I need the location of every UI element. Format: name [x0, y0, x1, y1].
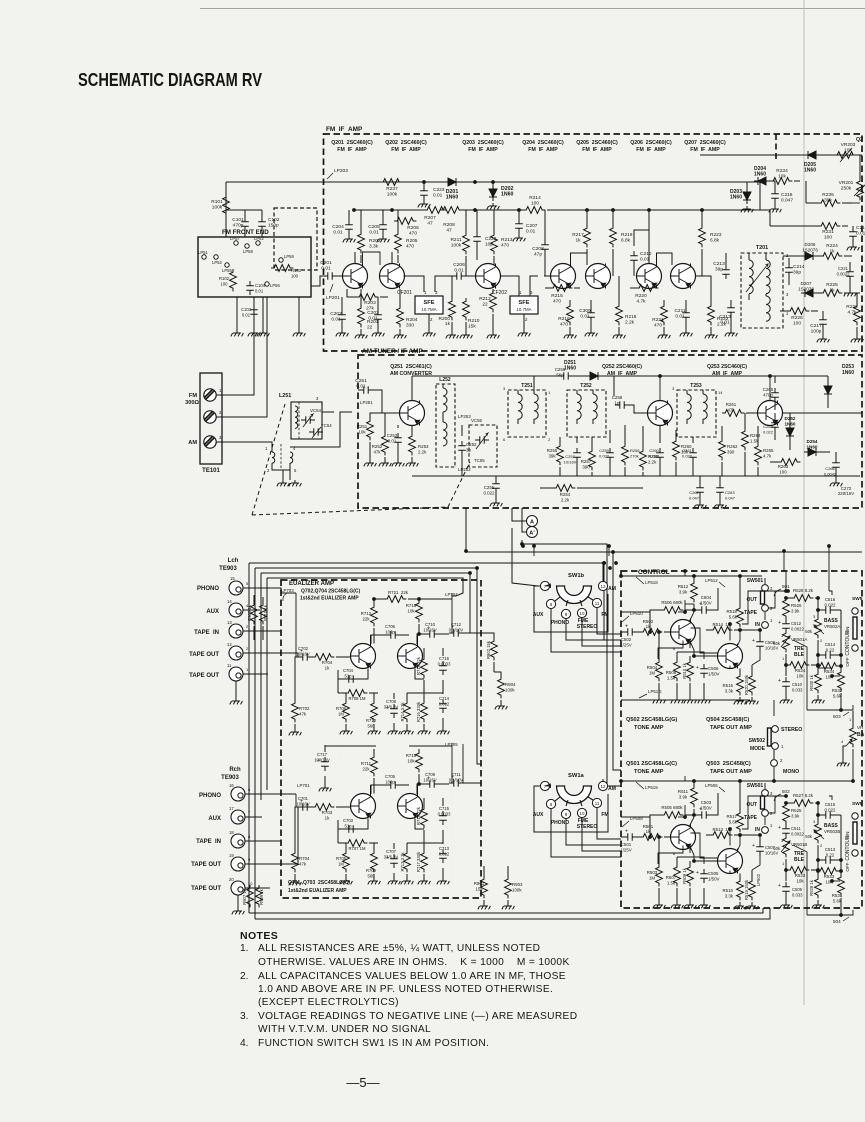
svg-text:10k: 10k	[358, 429, 366, 434]
svg-text:R719 22k: R719 22k	[416, 656, 421, 675]
svg-text:15k: 15k	[468, 323, 476, 329]
capacitor C253	[387, 425, 402, 460]
resistor R525	[783, 802, 802, 826]
svg-text:12: 12	[601, 784, 606, 789]
capacitor C512	[778, 619, 804, 633]
capacitor C515	[817, 802, 841, 819]
wire Q703 collector up	[417, 784, 419, 795]
svg-text:R709: R709	[366, 868, 377, 873]
resistor R503	[647, 836, 663, 902]
pot VR fragment right	[841, 711, 865, 760]
resistor R203	[347, 289, 388, 311]
svg-text:39k: 39k	[548, 453, 556, 458]
svg-text:FM: FM	[189, 393, 197, 399]
svg-text:LP52: LP52	[212, 260, 222, 265]
jack TAPE OUT R1	[229, 853, 251, 871]
svg-text:47k: 47k	[299, 861, 307, 866]
svg-text:C101: C101	[232, 217, 244, 223]
resistor R532	[832, 669, 845, 711]
label CONTROL	[638, 569, 670, 576]
svg-text:0.0022: 0.0022	[791, 626, 804, 631]
resistor R502	[640, 619, 671, 635]
resistor R509	[682, 861, 693, 902]
resistor R714	[400, 693, 410, 728]
resistor R534	[817, 663, 842, 680]
jack TAPE IN R	[229, 830, 251, 848]
svg-text:TE101: TE101	[202, 468, 220, 474]
svg-text:C263: C263	[725, 490, 735, 495]
svg-text:0.022: 0.022	[649, 453, 660, 458]
wire control right verts	[784, 546, 829, 591]
resistor R202	[358, 210, 381, 263]
wire AM bias bus	[412, 475, 860, 477]
ground R200	[446, 332, 459, 338]
svg-text:6.8k: 6.8k	[710, 237, 720, 243]
svg-text:390: 390	[727, 449, 735, 454]
terminal FM1	[204, 388, 222, 401]
ground R710	[368, 728, 381, 734]
ground frontend2	[257, 330, 270, 336]
label Rch	[229, 767, 241, 773]
svg-text:SW502: SW502	[749, 738, 766, 744]
coil L251 box	[291, 396, 322, 439]
transformer T251	[503, 383, 551, 442]
svg-text:10k: 10k	[407, 608, 415, 613]
node 502	[774, 789, 790, 801]
label LP502	[756, 873, 761, 886]
resistor R231	[770, 223, 848, 241]
resistor R721	[373, 590, 452, 602]
svg-text:C513: C513	[825, 847, 836, 852]
wire SW1a conn3	[551, 809, 621, 857]
svg-text:100k: 100k	[505, 687, 515, 692]
resistor R903	[505, 866, 523, 903]
svg-text:+: +	[752, 638, 755, 644]
svg-text:VR502A: VR502A	[824, 624, 840, 629]
jack PHONO R	[229, 783, 251, 801]
svg-text:1k: 1k	[829, 287, 835, 293]
svg-text:0.022: 0.022	[484, 490, 496, 495]
osc coil L252	[436, 377, 455, 467]
label AUX L	[206, 609, 219, 615]
svg-text:FM: FM	[601, 812, 608, 818]
label D253	[842, 364, 854, 376]
svg-text:47k: 47k	[299, 711, 307, 716]
svg-text:FM IF AMP: FM IF AMP	[326, 126, 363, 133]
svg-text:R202: R202	[369, 238, 381, 244]
terminal FM2	[204, 410, 222, 423]
svg-text:Q504 2SC458(C): Q504 2SC458(C)	[706, 717, 749, 723]
resistor R505	[650, 805, 694, 837]
svg-text:R214: R214	[529, 195, 541, 201]
svg-text:R517: R517	[727, 814, 738, 819]
capacitor C214	[785, 258, 805, 285]
ground R714	[401, 728, 414, 734]
svg-text:C206: C206	[453, 262, 465, 268]
resistor R237	[380, 179, 402, 198]
svg-text:Q202 2SC460(C): Q202 2SC460(C)	[385, 140, 427, 146]
svg-text:Q502 2SC458LG(G): Q502 2SC458LG(G)	[626, 717, 677, 723]
wire mid bus1	[521, 543, 621, 786]
svg-text:10/16V: 10/16V	[423, 627, 436, 632]
resistor R511	[678, 781, 697, 816]
transistor Q204	[551, 264, 576, 289]
svg-text:R907 1k: R907 1k	[242, 888, 247, 905]
capacitor C504	[694, 588, 718, 614]
label LP704	[445, 592, 458, 597]
ground C506	[698, 697, 711, 703]
svg-text:LP251: LP251	[360, 400, 373, 405]
svg-text:1M: 1M	[649, 875, 655, 880]
wire Q502 collector	[689, 612, 694, 622]
pot VR501B	[773, 835, 807, 881]
svg-text:47: 47	[427, 220, 433, 226]
resistor R711	[361, 749, 377, 794]
transistor Q702	[351, 644, 376, 669]
resistor R519	[744, 870, 755, 903]
resistor R507	[666, 857, 681, 902]
wire bottom rail 503	[807, 705, 853, 710]
svg-text:R226: R226	[791, 315, 803, 321]
resistor R908	[247, 595, 257, 640]
resistor R254	[540, 485, 643, 503]
svg-text:CONTROL: CONTROL	[638, 569, 670, 576]
svg-text:R254: R254	[560, 492, 571, 497]
label Q201	[331, 140, 373, 153]
svg-text:0.01: 0.01	[720, 319, 730, 325]
svg-text:ALL RESISTANCES ARE ±5%, ¼ WAT: ALL RESISTANCES ARE ±5%, ¼ WATT, UNLESS …	[258, 942, 540, 954]
svg-text:C201: C201	[320, 260, 332, 266]
terminal AM	[204, 435, 222, 448]
svg-text:+: +	[752, 843, 755, 849]
svg-text:47: 47	[446, 227, 452, 233]
wire Q202 collector	[392, 252, 398, 264]
transistor Q503	[718, 849, 743, 874]
resistor R214	[523, 182, 545, 213]
svg-text:R909 1k: R909 1k	[259, 888, 264, 905]
svg-text:11: 11	[595, 801, 600, 806]
svg-text:0.033: 0.033	[792, 892, 803, 897]
svg-text:10.7MA: 10.7MA	[421, 307, 436, 312]
label LP253	[458, 414, 471, 419]
ground C263	[714, 502, 727, 508]
jack AUX L	[227, 599, 249, 617]
wire SW1b conn2	[582, 617, 621, 646]
wire C504 link	[685, 604, 726, 612]
svg-text:2.: 2.	[240, 971, 249, 982]
equalizer amp box	[281, 580, 481, 898]
resistor R262	[719, 426, 738, 476]
svg-text:3p: 3p	[466, 447, 471, 452]
svg-text:0.047: 0.047	[781, 197, 793, 203]
ground R218	[613, 332, 626, 338]
wire eq box verticals L	[449, 593, 452, 633]
label LP703	[281, 588, 294, 601]
capacitor C705	[371, 774, 409, 794]
capacitor C205	[368, 210, 387, 236]
resistor R208	[440, 207, 462, 234]
svg-text:SW501: SW501	[747, 578, 764, 584]
coil L251 winding	[295, 402, 299, 439]
svg-text:TAPE OUT AMP: TAPE OUT AMP	[710, 769, 752, 775]
resistor R708	[338, 690, 378, 701]
resistor R909	[256, 885, 264, 907]
svg-text:0.22: 0.22	[826, 852, 835, 857]
resistor R702	[292, 657, 310, 729]
ground R251	[364, 460, 377, 466]
wire C717 link	[325, 746, 332, 752]
svg-text:ON: ON	[845, 832, 850, 839]
wire aux L in	[243, 609, 260, 611]
svg-text:R523: R523	[795, 873, 806, 878]
svg-text:C204: C204	[332, 224, 344, 230]
ground R706	[340, 728, 353, 734]
svg-text:10: 10	[580, 811, 585, 816]
svg-text:10k: 10k	[796, 878, 804, 883]
svg-text:50k: 50k	[773, 641, 781, 646]
svg-text:LP512: LP512	[705, 578, 718, 583]
svg-text:LP519: LP519	[645, 785, 658, 790]
svg-text:TC55: TC55	[474, 458, 485, 463]
wire fm right edge	[760, 155, 860, 210]
label Q253	[707, 364, 747, 377]
svg-text:14: 14	[718, 390, 723, 395]
wire SW1a loop	[534, 786, 608, 832]
svg-text:FM IF AMP: FM IF AMP	[337, 147, 367, 153]
svg-text:0.022: 0.022	[763, 429, 774, 434]
svg-text:10/16V: 10/16V	[423, 777, 436, 782]
resistor R259	[640, 426, 659, 476]
svg-text:Q503 2SC458(C): Q503 2SC458(C)	[706, 761, 751, 767]
resistor R707	[338, 840, 378, 851]
resistor R910	[260, 597, 268, 640]
svg-text:C712: C712	[451, 622, 462, 627]
capacitor C265	[763, 376, 779, 410]
wire R101 drop	[225, 182, 227, 237]
label LP201	[326, 284, 340, 301]
resistor R710	[366, 693, 377, 728]
svg-text:0.01: 0.01	[433, 192, 443, 198]
svg-text:100: 100	[793, 320, 801, 326]
svg-text:C511: C511	[791, 826, 801, 831]
ground R204	[394, 332, 407, 338]
wire control right col u	[831, 658, 840, 677]
node A	[527, 516, 538, 527]
capacitor C714	[439, 690, 450, 728]
resistor R252	[372, 413, 389, 460]
ground R530	[812, 697, 825, 703]
svg-text:C510: C510	[792, 682, 803, 687]
label eq 1st2nd	[300, 596, 359, 602]
svg-text:LP62: LP62	[254, 236, 264, 241]
resistor R206	[394, 218, 419, 237]
rotary switch SW1b	[533, 573, 616, 630]
resistor R213	[491, 210, 513, 276]
svg-text:SFE: SFE	[519, 300, 530, 306]
capacitor C216	[771, 181, 793, 206]
wire Q206 collector	[648, 210, 650, 264]
resistor R257	[581, 437, 596, 476]
wire Q504 base link	[691, 628, 718, 653]
wire tone out lower	[742, 796, 786, 829]
wire eq input L vert	[296, 593, 298, 657]
wire Q203 to CF202	[501, 276, 539, 296]
svg-text:R712: R712	[361, 611, 372, 616]
note line 7	[258, 1024, 431, 1035]
svg-text:100: 100	[291, 273, 299, 278]
svg-text:FM IF AMP: FM IF AMP	[391, 147, 421, 153]
svg-text:C211: C211	[674, 308, 685, 314]
svg-text:R533: R533	[824, 874, 835, 879]
svg-text:1/25V: 1/25V	[620, 847, 632, 852]
svg-text:LP58: LP58	[284, 254, 294, 259]
svg-text:C104: C104	[255, 283, 266, 288]
label CONTOUR R531	[845, 835, 851, 861]
wire control inner vert u	[738, 571, 749, 645]
svg-text:R708 1M: R708 1M	[349, 696, 367, 701]
wire bus A down1	[512, 528, 538, 586]
svg-text:STEREO: STEREO	[781, 727, 802, 733]
capacitor C212	[713, 253, 730, 279]
diode D253 sym	[824, 376, 832, 408]
svg-text:1S2076: 1S2076	[798, 286, 814, 291]
FM front end box	[198, 237, 311, 297]
ground R716	[418, 728, 431, 734]
svg-text:TAPE OUT AMP: TAPE OUT AMP	[710, 725, 752, 731]
svg-text:C506: C506	[708, 666, 719, 671]
wire sw501l stem	[764, 783, 766, 825]
svg-text:R901: R901	[474, 881, 485, 886]
ground C204	[343, 236, 356, 242]
svg-text:C262: C262	[689, 490, 699, 495]
switch SW501u	[744, 578, 773, 628]
wire AM out right	[783, 412, 863, 414]
wire frontend gnd3	[298, 297, 300, 330]
svg-text:R519 150k: R519 150k	[744, 879, 749, 900]
svg-text:AUX: AUX	[533, 612, 544, 618]
wire tapeout L2 in	[243, 673, 268, 675]
svg-text:SW1a: SW1a	[568, 773, 585, 779]
svg-text:0.22: 0.22	[826, 647, 835, 652]
varistor VR203	[834, 142, 856, 162]
svg-text:10: 10	[248, 881, 253, 886]
ground frontend1	[231, 330, 244, 336]
svg-text:C717: C717	[317, 752, 328, 757]
resistor R217	[572, 210, 590, 258]
svg-text:100/16V: 100/16V	[314, 757, 330, 762]
svg-text:100k: 100k	[387, 191, 398, 197]
svg-text:TONE AMP: TONE AMP	[634, 769, 664, 775]
svg-text:PHONO: PHONO	[197, 586, 219, 592]
svg-text:3.3k: 3.3k	[725, 893, 734, 898]
svg-text:51p: 51p	[345, 673, 353, 678]
svg-text:R704: R704	[322, 660, 333, 665]
wire eq R top bus	[332, 746, 452, 893]
wire Q702 emitter net	[338, 669, 443, 694]
label Lch	[228, 558, 239, 564]
wire bottom rail 504	[807, 910, 853, 915]
wire SW1b loop	[534, 586, 608, 632]
wire front end top	[226, 209, 262, 211]
label Q504 TAPE OUT AMP	[706, 717, 752, 731]
wire control top entries	[534, 546, 609, 556]
svg-text:R257: R257	[581, 459, 592, 464]
resistor R260	[673, 430, 692, 476]
resistor R528	[785, 588, 820, 601]
svg-text:Q253 2SC460(C): Q253 2SC460(C)	[707, 364, 747, 370]
svg-text:SCHEMATIC DIAGRAM RV: SCHEMATIC DIAGRAM RV	[78, 70, 262, 90]
svg-text:TAPE IN: TAPE IN	[194, 630, 219, 636]
svg-text:ON: ON	[845, 627, 850, 634]
capacitor C104	[246, 281, 265, 295]
wire supply bus	[353, 209, 770, 226]
svg-text:R251: R251	[357, 424, 368, 429]
label TAPE IN R	[196, 839, 221, 845]
capacitor C703	[338, 818, 368, 833]
ground R903	[502, 903, 515, 909]
svg-text:220/16V: 220/16V	[838, 491, 854, 496]
svg-text:100: 100	[779, 469, 787, 474]
svg-text:C103: C103	[241, 307, 252, 312]
svg-text:R255: R255	[547, 448, 558, 453]
svg-text:BLE: BLE	[794, 857, 805, 863]
ground C510	[780, 697, 793, 703]
capacitor C503	[694, 793, 718, 819]
resistor R501	[640, 824, 671, 840]
svg-text:C202: C202	[330, 311, 342, 317]
diode D201	[444, 178, 460, 200]
transistor Q704	[398, 644, 423, 669]
wire L251 bottom	[272, 463, 290, 480]
svg-text:R102: R102	[219, 276, 230, 281]
svg-text:FUNCTION SWITCH SW1 IS IN AM P: FUNCTION SWITCH SW1 IS IN AM POSITION.	[258, 1038, 489, 1049]
wire bass left VR502A	[817, 598, 819, 617]
svg-text:C216: C216	[781, 192, 793, 198]
label LP510	[622, 611, 643, 622]
svg-text:R263: R263	[778, 464, 789, 469]
svg-text:14: 14	[227, 599, 232, 604]
svg-text:C255: C255	[484, 485, 495, 490]
resistor R704	[312, 654, 351, 671]
title SCHEMATIC DIAGRAM RV	[78, 70, 262, 90]
wire R530 top	[787, 590, 818, 668]
wire R508 emitter link	[676, 648, 678, 652]
svg-text:TAPE OUT: TAPE OUT	[191, 862, 221, 868]
svg-text:C261: C261	[682, 448, 692, 453]
ground R507	[671, 902, 684, 908]
svg-text:PHONO: PHONO	[551, 620, 569, 626]
resistor R215	[545, 285, 580, 305]
wire ant FM1	[216, 297, 254, 395]
wire SW1a conn2	[582, 817, 621, 851]
svg-text:1.5k: 1.5k	[667, 880, 676, 885]
svg-text:(EXCEPT ELECTROLYTICS): (EXCEPT ELECTROLYTICS)	[258, 997, 399, 1008]
svg-text:0.1/10V: 0.1/10V	[449, 777, 464, 782]
svg-text:1/50V: 1/50V	[700, 805, 712, 810]
svg-text:1N60: 1N60	[842, 370, 854, 376]
svg-text:0.01: 0.01	[321, 265, 331, 271]
label TAPE IN L	[194, 630, 219, 636]
svg-text:D207: D207	[801, 281, 812, 286]
svg-text:1/50V: 1/50V	[708, 671, 720, 676]
transistor Q253	[758, 401, 783, 426]
svg-text:503: 503	[833, 714, 841, 719]
svg-text:0.022: 0.022	[599, 453, 610, 458]
wire Q501 emitter net	[658, 846, 690, 865]
diode D206	[783, 242, 824, 260]
svg-text:R702: R702	[299, 706, 310, 711]
svg-text:100p: 100p	[385, 779, 395, 784]
